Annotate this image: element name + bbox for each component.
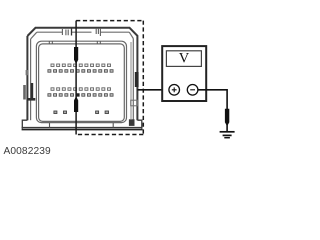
connector second outline top segment 3	[101, 31, 130, 33]
connector second outline top segment 1	[37, 31, 63, 33]
minus sign	[190, 89, 195, 91]
voltmeter screen	[166, 51, 201, 67]
left latch inner dark bar	[31, 83, 33, 98]
connector second outline top segment 2	[72, 31, 92, 33]
connector second outline right edge	[132, 39, 134, 121]
inner face outer line	[36, 41, 126, 122]
top tab group 1 dark tick	[71, 29, 73, 36]
base tick left	[49, 123, 51, 128]
base tick right	[112, 123, 114, 128]
isolated pins bottom row	[54, 111, 109, 114]
right latch notch	[135, 72, 139, 87]
connector base step right	[137, 120, 141, 128]
plus sign	[172, 87, 177, 92]
face tick pair 1	[49, 41, 52, 44]
dashed box right edge	[142, 21, 144, 135]
up arrow probe	[74, 96, 78, 112]
connector second outline left edge	[30, 39, 32, 120]
pin row 2	[48, 70, 113, 73]
connector body outer outline	[27, 28, 137, 121]
connector extra right line	[130, 42, 132, 119]
connector base bottom line 1	[22, 127, 143, 129]
inner face inner line	[39, 44, 125, 122]
left small nub	[26, 70, 28, 75]
top tab group 2 tick a	[95, 29, 97, 34]
svg-text:V: V	[179, 51, 190, 67]
connector body left edge	[26, 36, 28, 120]
plus terminal	[169, 85, 180, 96]
connector base bottom line 2	[22, 129, 143, 131]
voltmeter box U1	[162, 46, 206, 101]
left latch outer gray bar	[23, 85, 26, 100]
pin row 4	[48, 94, 113, 97]
wire from minus terminal to ground	[198, 90, 227, 131]
top tab group 1 small U	[66, 30, 68, 36]
down arrow probe	[74, 47, 78, 64]
dashed box bottom edge	[76, 134, 143, 136]
top tab group 2 tick c	[99, 29, 101, 36]
connector base step left	[22, 120, 27, 128]
face tick pair 2	[97, 41, 100, 44]
pin row 3	[51, 88, 111, 91]
ground probe plug	[225, 109, 229, 126]
top tab group 1 tick a	[61, 29, 63, 35]
connector second outline left chamfer	[31, 32, 37, 39]
bottom right nub	[129, 119, 135, 126]
svg-text:A0082239: A0082239	[4, 146, 51, 157]
dashed box top edge	[76, 20, 143, 22]
ground symbol	[220, 132, 235, 138]
minus terminal	[187, 85, 198, 96]
pin row 1	[51, 64, 111, 67]
probe line (solid left edge of dashed box)	[75, 21, 77, 135]
left latch bottom bar	[27, 98, 35, 101]
top tab group 2 tick b	[97, 29, 99, 34]
connector second outline right chamfer	[129, 32, 133, 38]
wire from connector to voltmeter plus	[137, 89, 169, 91]
right small box	[131, 100, 138, 106]
